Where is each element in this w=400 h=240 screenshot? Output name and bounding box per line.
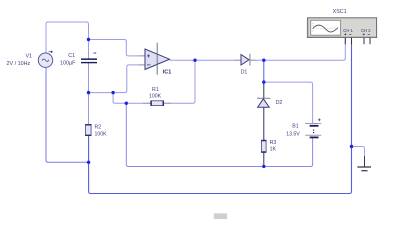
junction node D2 top branch <box>262 80 265 83</box>
svg-text:B1: B1 <box>292 123 298 129</box>
op-amp IC1 <box>139 43 170 75</box>
wire top rail V1 to C1 <box>46 22 89 59</box>
wire R1 right to output <box>164 60 195 103</box>
diode D2 <box>257 98 270 107</box>
wire D1 to node <box>250 59 264 61</box>
svg-text:CH 1: CH 1 <box>343 28 353 33</box>
oscilloscope XSC1 <box>307 18 376 45</box>
wire branch to R1 <box>113 93 151 104</box>
resistor R3 <box>261 140 266 153</box>
svg-text:XSC1: XSC1 <box>333 9 347 15</box>
svg-text:D1: D1 <box>241 70 248 76</box>
junction node C1 top branch <box>87 38 90 41</box>
svg-text:R2: R2 <box>95 124 102 130</box>
label D2 <box>276 100 283 106</box>
svg-text:D2: D2 <box>276 100 283 106</box>
resistor R1 <box>143 101 171 106</box>
junction node R1 branch <box>111 91 114 94</box>
label D1 <box>241 70 248 76</box>
junction node ground branch <box>350 145 353 148</box>
junction node inverting to bottom rail <box>125 102 128 105</box>
svg-text:C1: C1 <box>68 53 75 59</box>
label C1 <box>60 53 76 67</box>
svg-text:CH 2: CH 2 <box>361 28 371 33</box>
resistor R2 <box>85 124 91 136</box>
junction node inverting net at C1 wire <box>87 91 90 94</box>
label V1 <box>7 54 33 67</box>
wire node to D2 chain top <box>263 60 265 82</box>
wire D2 chain leads <box>263 82 265 166</box>
diode D1 <box>235 54 257 66</box>
wire V1 bottom horizontal <box>46 68 89 163</box>
source V1 <box>38 30 52 67</box>
svg-text:100K: 100K <box>95 131 108 137</box>
battery B1 <box>305 118 321 138</box>
wire op-amp output to D1 <box>170 59 241 61</box>
svg-text:V1: V1 <box>26 54 33 60</box>
ground <box>357 156 371 171</box>
label R3 <box>270 140 277 153</box>
label B1 <box>286 123 300 137</box>
svg-text:100K: 100K <box>149 94 162 100</box>
wire C1 bottom to R2 <box>88 63 90 125</box>
label XSC1 <box>333 9 347 15</box>
capacitor C1 <box>81 53 97 63</box>
wire node to oscilloscope CH1+ <box>264 38 346 60</box>
wire inverting input net <box>89 65 140 93</box>
label R2 <box>95 124 108 137</box>
wire branch to B1 top <box>264 82 313 123</box>
label IC1 <box>163 70 171 76</box>
junction node op-amp output <box>193 59 196 62</box>
svg-text:13.5V: 13.5V <box>286 131 300 137</box>
wire R2 bottom to outer rail and CH1- riser <box>89 38 352 194</box>
wire noninverting input jog <box>89 40 140 56</box>
svg-text:1K: 1K <box>270 147 277 153</box>
junction node V1 bottom at R2 wire <box>87 161 90 164</box>
junction node D1 cathode <box>262 59 265 62</box>
svg-text:2V / 10Hz: 2V / 10Hz <box>7 61 31 67</box>
svg-text:R3: R3 <box>270 140 277 146</box>
scrollbar thumb <box>214 213 227 219</box>
wire ground branch <box>352 147 365 158</box>
label R1 <box>149 87 162 99</box>
svg-text:R1: R1 <box>152 87 159 93</box>
junction node R3 bottom rail <box>262 165 265 168</box>
wire inverting node down to inner bottom rail to B1 bottom <box>126 103 312 166</box>
svg-text:100µF: 100µF <box>60 60 76 66</box>
svg-text:IC1: IC1 <box>163 70 171 76</box>
